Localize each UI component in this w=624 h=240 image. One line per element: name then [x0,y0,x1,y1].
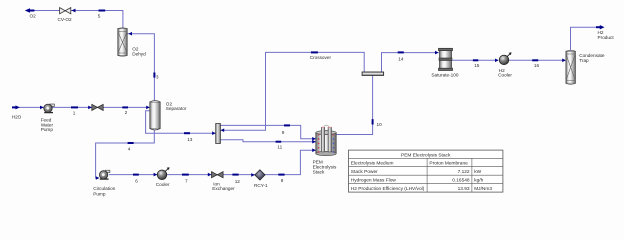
arrow into trap [562,59,566,63]
svg-text:6: 6 [135,178,138,183]
arrow into feed valve [88,106,92,110]
arrow into saturator [435,51,439,55]
svg-text:O2: O2 [30,13,37,18]
svg-text:7.122: 7.122 [458,169,470,175]
tick stream 10 (vertical) [372,119,374,124]
valve CV-O2 [60,8,71,14]
svg-text:PEM Electrolysis Stack: PEM Electrolysis Stack [401,152,451,158]
svg-text:1: 1 [73,110,76,115]
tick crossover [311,51,318,53]
arrow into cooler [154,173,158,177]
svg-text:Hydrogen Mass Flow: Hydrogen Mass Flow [351,178,397,184]
svg-text:CV-O2: CV-O2 [58,17,72,22]
svg-text:8: 8 [281,178,284,183]
wire stream 6 (pump to Cooler) [109,174,158,176]
arrow into CV-O2 [72,9,76,13]
valve Ion Exchanger [212,172,224,178]
svg-text:Crossover: Crossover [310,55,332,60]
svg-text:Stack: Stack [313,170,325,175]
svg-text:2: 2 [125,110,128,115]
wire stream 13 (separator side to mixer) [146,111,216,134]
tick stream 2 [122,106,128,108]
svg-text:12: 12 [235,179,241,184]
svg-text:13: 13 [187,137,193,142]
svg-text:Stack Power: Stack Power [351,169,378,175]
tick stream 5 [99,10,106,12]
wire stream 7/12/8 (Cooler to Ion Exchanger to RCY-1 to stack) [167,150,316,174]
svg-text:H2O: H2O [12,114,22,119]
tick stream 8 [278,174,284,176]
svg-text:13.93: 13.93 [458,186,470,192]
svg-text:0.16548: 0.16548 [452,178,470,184]
column O2 Dehyd [118,28,127,56]
tick stream 7 [182,174,189,176]
wire H2 product (trap top to arrow) [571,27,599,50]
wire stream 10 (stack to tee) [336,75,373,134]
cooler Cooler [157,167,169,179]
wire O2 product line (valve to O2 Dehyd top) [28,11,123,30]
svg-text:15: 15 [474,63,480,68]
tick stream 9 [284,124,290,126]
drum Saturate-100 [439,48,453,70]
stream arrows and ticks [12,8,605,180]
arrow H2 product (points right) [596,26,600,28]
tick stream 11 [276,141,282,143]
arrow O2 product (points left) [29,10,34,12]
svg-text:kW: kW [474,169,481,175]
svg-text:Cooler: Cooler [498,73,512,78]
svg-text:5: 5 [98,13,101,18]
svg-text:9: 9 [282,130,285,135]
svg-text:Pump: Pump [41,127,54,132]
wire feed line H2O/1/2 (to O2 Separator) [13,106,149,108]
wire stream 3 (O2 Dehyd right to O2 Separator top) [127,34,154,101]
tick stream 13 [184,132,190,134]
svg-text:Exchanger: Exchanger [212,186,235,191]
vessel O2 Separator [150,101,160,131]
arrow into stack (8) [312,148,316,152]
svg-text:Proton Membrane: Proton Membrane [429,161,468,167]
svg-text:11: 11 [277,145,282,150]
pump Circulation Pump [99,170,110,179]
arrow into mixer (13) [212,131,216,135]
wire stream 4 (separator bottom to Circulation Pump) [96,128,155,178]
svg-text:Circulation: Circulation [93,186,116,191]
wire stream 11 (mixer to stack) [220,140,315,142]
svg-text:7: 7 [185,179,188,184]
tick stream 3 (vertical) [153,73,155,78]
svg-text:16: 16 [534,63,540,68]
svg-text:4: 4 [128,146,131,151]
svg-text:Pump: Pump [93,191,106,196]
mixer bar (left) [216,124,221,144]
svg-text:Trap: Trap [579,58,589,63]
arrow into mixer (crossover) [221,128,225,132]
arrow into stack (9) [312,137,316,141]
svg-text:Cooler: Cooler [156,182,170,187]
wire stream 14 (tee to saturator) [382,53,439,73]
svg-text:Product: Product [598,35,615,40]
vessel Condensate Trap [566,50,576,84]
recycle RCY-1 [255,170,265,180]
arrow into stack (11) [312,140,316,144]
svg-text:H2 Production Efficiency (LHV/: H2 Production Efficiency (LHV/vol) [351,186,425,192]
tee bar (top) [362,72,384,75]
svg-text:3: 3 [156,74,159,79]
svg-text:Separator: Separator [166,106,187,111]
tick stream 16 [532,59,538,61]
tick stream 14 [398,51,404,53]
stream number labels [73,13,540,183]
svg-text:MJ/Nm3: MJ/Nm3 [474,186,492,192]
pump Feed Water Pump [44,104,55,113]
svg-text:Saturate-100: Saturate-100 [431,73,458,78]
tick stream 12 [232,174,238,176]
wire crossover (tee to mixer) [220,52,364,130]
svg-text:Electrolysis Medium: Electrolysis Medium [351,161,394,167]
svg-text:Dehyd: Dehyd [132,51,146,56]
tick stream 1 [71,106,78,108]
table PEM Electrolysis Stack [349,150,503,192]
wire stream 16 (H2 Cooler to Condensate Trap) [509,59,566,61]
arrow into feed pump [40,106,44,110]
svg-text:10: 10 [377,122,383,127]
arrow into separator [146,106,150,110]
cooler H2 Cooler [499,52,511,64]
reactor PEM Electrolysis Stack [316,125,336,156]
svg-text:RCY-1: RCY-1 [254,183,268,188]
tick stream 6 [133,174,139,176]
arrow into ion exchanger [208,173,212,177]
wire stream 15 (saturator to H2 Cooler) [452,59,498,61]
tick stream 15 [473,59,478,61]
arrow H2O source (points right) [12,106,17,108]
wire stream 9 (mixer to stack) [220,125,315,138]
arrow into RCY-1 [251,173,255,177]
arrow into H2 cooler [495,59,499,63]
arrow into circulation pump [96,176,100,180]
arrow into O2 Dehyd (3) [128,32,132,36]
tick stream 4 [128,142,134,144]
svg-text:14: 14 [398,56,404,61]
svg-text:kg/h: kg/h [474,178,483,184]
valve feed (unnamed) [92,104,103,110]
